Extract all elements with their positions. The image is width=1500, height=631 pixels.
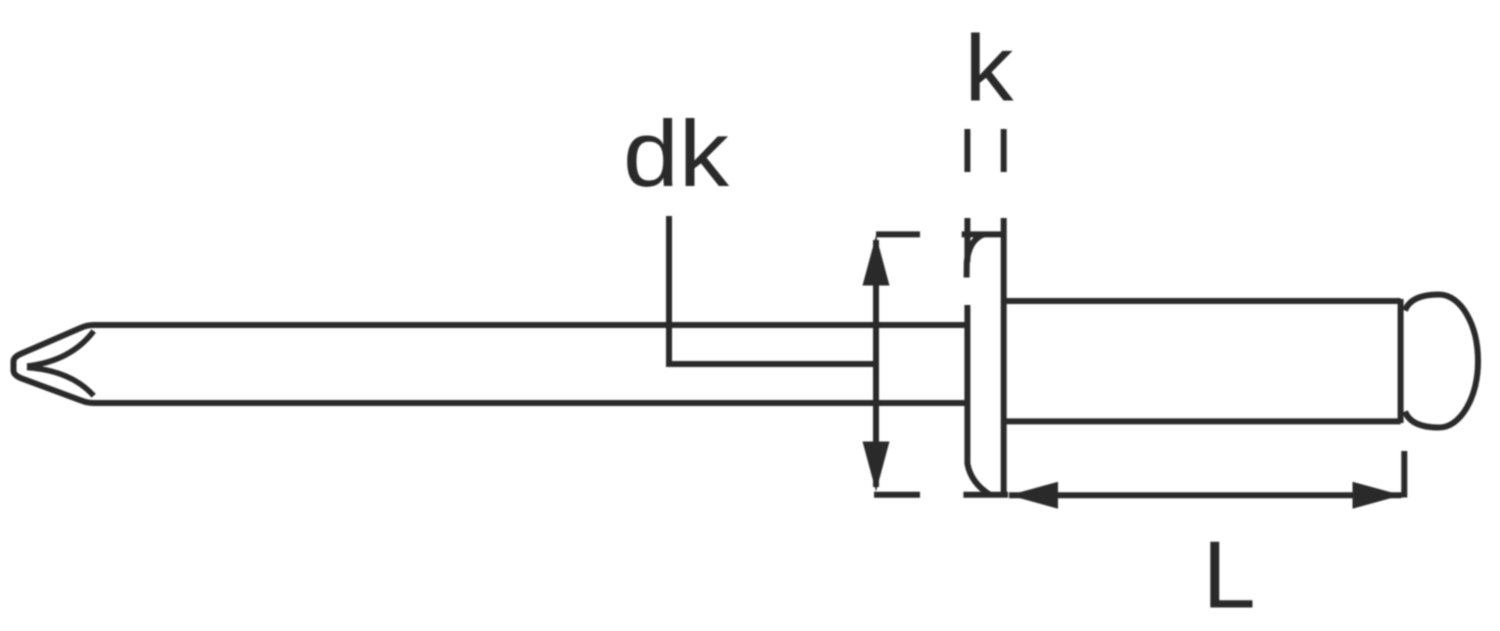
dk arrowhead down: [863, 442, 890, 492]
k left extension dash lower: [964, 218, 970, 262]
svg-text:dk: dk: [623, 101, 730, 206]
svg-text:L: L: [1203, 523, 1256, 629]
rivet body top line: [1004, 298, 1401, 304]
rivet body bottom line: [1004, 418, 1401, 424]
L right extension tick: [1401, 451, 1407, 498]
dk arrowhead up: [863, 236, 890, 286]
rivet flange (head) dome outline upper arc: [967, 234, 984, 277]
mandrel tip inner upper curve: [27, 331, 94, 366]
flange bottom tangent tick: [963, 492, 1008, 498]
dk bottom extension tick: [874, 492, 920, 498]
k right extension dash upper: [1001, 129, 1007, 172]
flange top tangent tick: [962, 231, 1006, 237]
flange right face line: [1001, 218, 1007, 495]
rivet flange (head) dome outline lower part: [967, 305, 990, 495]
k left extension dash upper: [964, 129, 970, 172]
L dimension line (horizontal double arrow): [1009, 492, 1402, 498]
L arrowhead left: [1009, 482, 1058, 509]
mandrel tip inner lower curve: [27, 367, 94, 395]
dk top extension tick: [876, 231, 920, 237]
dk dimension line (vertical double arrow): [873, 240, 879, 487]
mandrel head dome at right end: [1405, 295, 1478, 428]
dk leader line: [669, 216, 876, 364]
mandrel outline (long pin with pointed tip): [14, 325, 968, 403]
rivet body end face line: [1398, 299, 1404, 423]
L arrowhead right: [1353, 482, 1402, 509]
svg-text:k: k: [965, 16, 1015, 121]
